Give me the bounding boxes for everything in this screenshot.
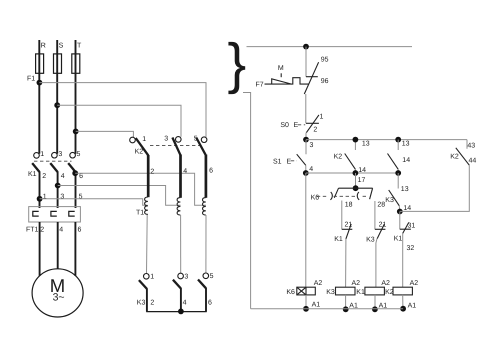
svg-text:2: 2 [150,168,154,175]
svg-text:3: 3 [164,136,168,143]
fuse F1 a [36,54,44,73]
svg-text:3~: 3~ [53,292,65,304]
K2 13-14 blade [345,154,356,170]
wire S1 to node 4 [305,165,307,173]
svg-text:31: 31 [408,223,416,230]
svg-text:3: 3 [310,142,314,149]
contactor K2 blade a [136,138,149,155]
node A1 K1 [372,306,378,312]
K6 linkage dashes b [334,195,357,197]
K3 13-14 stub [397,173,399,189]
wire to K3 coil [345,239,347,287]
K1 linkage dashed [34,160,72,162]
node star point [178,309,184,315]
node 17 K6 bridge [353,185,359,191]
wire top node down [305,47,307,77]
svg-text:4: 4 [61,173,65,180]
wire FT1 to motor a [39,222,41,276]
svg-text:6: 6 [79,173,83,180]
svg-text:E: E [287,158,292,165]
node terminal 4 [55,183,61,189]
right contact stub [397,140,399,150]
svg-text:5: 5 [77,151,81,158]
svg-text:1: 1 [43,194,47,201]
contactor K1 blade a [32,163,39,172]
svg-text:95: 95 [321,56,329,63]
tap wire from node 4 to T1 coil 2 [58,186,181,206]
FT1 heater c [69,211,75,216]
F7 trip triangle [272,79,292,84]
K3 21-22 tick [375,228,386,230]
contactor K1 blade b [50,163,57,172]
svg-text:M: M [278,65,284,72]
wire K2 coil to rail [402,295,404,309]
FT1 heater a [33,211,39,216]
contactor K1 contact circles [34,153,40,159]
node control top [303,44,309,50]
K1 21-22 blade [346,224,351,239]
S1 linkage dashed [291,160,297,162]
svg-text:13: 13 [401,186,409,193]
contactor K1 blade c [68,163,75,172]
S0 linkage dashed [298,124,305,126]
svg-text:5: 5 [210,273,214,280]
coil K3 box [336,287,356,295]
svg-text:43: 43 [467,142,475,149]
K6 timing arc left [330,192,332,200]
svg-text:21: 21 [379,222,387,229]
K3 star bus [146,311,207,313]
svg-text:K1: K1 [334,236,343,243]
K2 13-14 lower stub [354,169,356,173]
svg-text:A2: A2 [314,280,323,287]
wire node14 down [399,212,401,230]
wire K6 coil to rail [305,295,307,309]
svg-text:S0: S0 [280,122,289,129]
wire K1 coil to rail [374,295,376,309]
svg-text:3: 3 [60,194,64,201]
K2 linkage dashed [150,144,201,146]
trip actuator tick [280,73,282,77]
K3 13-14 lower stub [398,206,401,212]
coil K1 box [365,287,385,295]
svg-text:K1: K1 [356,289,365,296]
svg-text:A1: A1 [312,301,321,308]
branch to K2 43-44 [400,165,470,211]
svg-text:2: 2 [42,173,46,180]
node rail2 right [395,170,401,176]
node R tap [37,80,43,86]
S0 contact tick [306,122,319,124]
svg-text:A2: A2 [410,280,419,287]
wire S tap to K2 contact 3 [57,105,181,137]
fuse F1 c [72,54,80,73]
svg-text:K2: K2 [334,153,343,160]
svg-text:4: 4 [309,166,313,173]
svg-text:1: 1 [142,136,146,143]
svg-text:6: 6 [208,300,212,307]
node terminal 6 [72,170,78,176]
coil K2 box [393,287,412,295]
thick feed to T1 coil 2 [179,155,182,198]
node A1 K6 [303,306,309,312]
svg-text:2: 2 [313,127,317,134]
K3 star bus mid leg [180,288,182,312]
wire K3 coil to rail [345,295,347,309]
phase line R [38,40,40,154]
node A1 K2 [400,306,406,312]
svg-text:6: 6 [78,227,82,234]
F7 trip device [265,78,309,84]
control rail 2 [306,172,398,174]
coil K6 X [297,287,306,295]
K3 star bus left leg [146,288,148,311]
svg-text:6: 6 [209,168,213,175]
contactor K3 blade b [173,280,181,289]
control bottom rail [251,308,404,310]
svg-text:14: 14 [358,167,366,174]
S1 stub [305,140,307,155]
tap wire from node 2 to T1 coil 1 [40,199,148,205]
motor M [32,269,83,317]
S1 blade [297,154,306,165]
T1 coil 3 [203,198,206,215]
left rail link from brace [243,93,251,309]
FT1 heater b [51,211,57,216]
phase line T [75,40,77,154]
wire S0 to node 3 [305,133,307,140]
svg-text:K1: K1 [28,171,37,178]
svg-text:A2: A2 [352,280,361,287]
thermal overload FT1 box [29,207,81,222]
svg-text:K3: K3 [137,300,146,307]
contactor K2 blade c [196,138,205,155]
K6 left blade [334,188,338,198]
svg-text:1: 1 [40,151,44,158]
thick feed to T1 coil 1 [147,155,150,197]
svg-text:F7: F7 [256,82,264,89]
K6 right blade [370,188,373,199]
svg-text:17: 17 [358,177,366,184]
svg-text:R: R [41,42,46,49]
phase line S [56,40,58,154]
svg-text:K1: K1 [394,236,403,243]
tap wire from node 6 to T1 coil 3 [75,173,206,205]
wire F7 to S0 [305,94,307,123]
K6 linkage dashes a [317,195,327,197]
svg-text:4: 4 [183,300,187,307]
svg-text:K3: K3 [366,236,375,243]
K6 bridge bar [339,187,373,189]
S0 blade [306,115,319,133]
svg-text:5: 5 [79,194,83,201]
wire T1 coil3 to K3 [205,215,207,273]
F7 contact 95-96 tick [306,76,318,78]
svg-text:}: } [228,32,247,95]
svg-text:2: 2 [40,227,44,234]
wire 17 [355,173,357,188]
wire 18 down [341,201,343,230]
svg-text:FT1: FT1 [26,227,39,234]
svg-text:1: 1 [150,274,154,281]
K3 13-14 blade [389,190,400,206]
node terminal 2 [37,196,43,202]
T1 coil 1 [145,197,148,214]
svg-text:3: 3 [184,273,188,280]
K1 21-22 tick [342,228,353,230]
wire below K1 a [39,172,41,209]
svg-text:13: 13 [402,140,410,147]
wire T1 coil2 to K3 [180,215,182,273]
svg-text:F1: F1 [27,75,35,82]
K2 13-14 contact mid: stub [354,140,356,150]
node 3 [303,137,309,143]
wire below K1 b [57,172,59,209]
contactor K3 blade c [198,280,206,289]
svg-text:32: 32 [407,245,415,252]
svg-text:3: 3 [58,151,62,158]
node 13 mid [353,137,359,143]
svg-text:E: E [294,122,299,129]
thick feed to T1 coil 3 [205,155,208,198]
node T tap [73,129,79,135]
K6 linkage dashes c [363,195,368,197]
wire node4 to K6 coil [305,173,307,287]
right contact lower stub [397,169,399,173]
svg-text:4: 4 [59,227,63,234]
wire below K1 c [75,172,77,209]
svg-text:T1: T1 [136,209,144,216]
svg-text:21: 21 [345,222,353,229]
K2 43-44 stub [466,140,468,149]
K1 31-32 tick [400,228,411,230]
contactor K3 blade a [139,280,147,289]
svg-text:K6: K6 [311,195,320,202]
node 14 mid [353,170,359,176]
node S tap [54,102,60,108]
wire 28 down [374,201,376,229]
wire T tap to K2 contact 1 [76,131,134,137]
control top rail [247,46,413,48]
right contact blade [388,154,399,170]
svg-text:2: 2 [150,300,154,307]
svg-text:K2: K2 [450,154,459,161]
node A1 K3 [343,306,349,312]
svg-text:S: S [59,42,64,49]
svg-text:44: 44 [469,157,477,164]
wire FT1 to motor c [74,222,76,276]
svg-text:K2: K2 [135,148,144,155]
wire T1 coil1 to K3 [146,215,149,274]
control rail 1 [306,139,467,141]
K1 31-32 blade [403,222,409,233]
node 14 lower [397,209,403,215]
node 4 [303,170,309,176]
right contact 13-14: node 13 [395,137,401,143]
svg-text:K3: K3 [385,197,394,204]
svg-text:K3: K3 [326,289,335,296]
fuse F1 b [54,54,62,73]
contactor K2 contact circles [130,137,136,143]
wire FT1 to motor b [57,222,59,269]
K3 21-22 blade [377,224,384,239]
svg-text:A1: A1 [408,302,417,309]
svg-text:K2: K2 [385,289,394,296]
K2 43-44 blade [456,148,470,165]
wire to K1 coil [376,239,377,288]
K3 star bus right leg [205,288,207,312]
svg-text:13: 13 [362,140,370,147]
wire R tap to K2 contact 5 [39,83,206,137]
svg-text:K6: K6 [286,289,295,296]
coil K6 box [297,287,316,295]
wire to K2 coil [402,233,404,287]
K6 timing arc right [357,192,359,200]
svg-text:T: T [77,42,82,49]
svg-text:14: 14 [402,157,410,164]
svg-text:1: 1 [320,114,324,121]
svg-text:18: 18 [345,201,353,208]
svg-text:28: 28 [377,201,385,208]
T1 coil 2 [177,198,180,215]
svg-text:96: 96 [321,78,329,85]
F7 contact blade [304,62,318,94]
svg-text:A2: A2 [381,280,390,287]
contactor K3 contact circles [144,274,150,280]
contactor K2 blade b [172,138,180,155]
svg-text:4: 4 [183,168,187,175]
svg-text:S1: S1 [273,158,282,165]
